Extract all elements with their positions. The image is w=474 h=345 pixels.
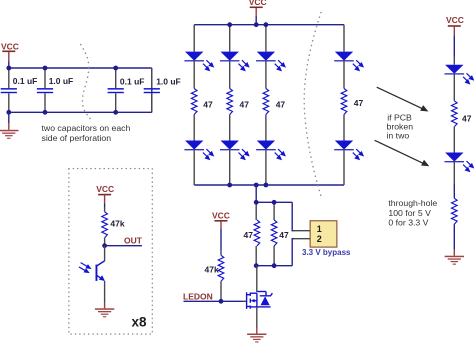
supply VCC (above 47k): [212, 211, 230, 250]
wire bottom node: [256, 265, 292, 267]
resistor R6 47: [271, 202, 289, 265]
wire: [453, 74, 455, 101]
resistor R4 47: [341, 89, 347, 115]
perforation line (left): [81, 45, 91, 120]
svg-text:LEDON: LEDON: [183, 291, 213, 301]
supply VCC (top-right): [446, 15, 464, 56]
wire: [453, 127, 455, 153]
ground GND4 (in box): [95, 303, 114, 318]
transistor Q1 N-MOSFET: [247, 292, 273, 309]
svg-text:47: 47: [462, 114, 472, 124]
svg-text:47: 47: [279, 230, 289, 240]
wire right edge of capacitor bank: [151, 68, 153, 112]
junction dot OUT: [102, 243, 107, 248]
resistor R7 47k: [205, 250, 224, 301]
svg-text:through-hole: through-hole: [388, 198, 437, 208]
capacitor C3 0.1 uF: [108, 68, 145, 112]
svg-text:VCC: VCC: [249, 0, 267, 7]
column 3: wire: [265, 25, 267, 52]
ground GND3 (right column): [445, 249, 464, 265]
wire collector: [104, 246, 106, 261]
column 2: wire: [229, 25, 231, 52]
resistor R5 47: [244, 202, 260, 265]
wire: [193, 150, 195, 185]
LED D8: [334, 141, 363, 160]
svg-text:1.0 uF: 1.0 uF: [156, 77, 181, 87]
junction dots capacitor bank: [6, 66, 118, 115]
pin 2 lead: [294, 238, 311, 240]
junction dots LED array: [227, 22, 268, 187]
wire: [229, 150, 231, 185]
supply VCC (in box): [96, 184, 114, 207]
LED D7: [256, 141, 285, 160]
LED D2: [220, 52, 249, 71]
LED D1: [184, 52, 213, 71]
wire bottom rail of capacitor bank: [9, 111, 152, 113]
svg-text:1: 1: [317, 224, 322, 234]
svg-text:0.1 uF: 0.1 uF: [120, 77, 145, 87]
svg-text:1.0 uF: 1.0 uF: [49, 76, 74, 86]
svg-text:VCC: VCC: [1, 42, 19, 52]
wire: [229, 115, 231, 141]
transistor Q2 phototransistor: [79, 261, 105, 281]
svg-text:VCC: VCC: [446, 15, 464, 25]
connector JP1 3.3 V bypass: [310, 221, 337, 247]
svg-text:47: 47: [203, 100, 213, 110]
svg-text:0.1 uF: 0.1 uF: [13, 76, 38, 86]
svg-text:VCC: VCC: [96, 184, 114, 194]
wire top node: [256, 201, 292, 203]
svg-text:3.3 V bypass: 3.3 V bypass: [302, 248, 351, 257]
capacitor C2 1.0 uF: [37, 68, 73, 112]
resistor R8 47: [452, 101, 458, 127]
wire LEDON net: [184, 300, 243, 302]
resistor R2 47: [227, 89, 233, 115]
arrow (upper, if PCB broken): [377, 87, 429, 111]
svg-text:side of perforation: side of perforation: [42, 133, 112, 143]
svg-text:OUT: OUT: [124, 236, 143, 246]
junction dot LEDON/47k: [219, 299, 224, 304]
resistor R1 47: [191, 89, 197, 115]
resistor R10 47k: [102, 207, 125, 246]
svg-text:47: 47: [244, 230, 254, 240]
wire: [265, 115, 267, 141]
column 4: wire: [343, 25, 345, 52]
wire: [453, 57, 455, 65]
wire bottom rail of LED array: [194, 184, 344, 186]
svg-text:100 for 5 V: 100 for 5 V: [388, 208, 431, 218]
svg-text:0 for 3.3 V: 0 for 3.3 V: [388, 217, 428, 227]
capacitor C1 0.1 uF: [1, 68, 38, 112]
arrow (lower, if PCB broken): [375, 140, 430, 166]
wire: [193, 115, 195, 141]
svg-text:VCC: VCC: [212, 211, 230, 221]
wire: [265, 150, 267, 185]
capacitor C4 1.0 uF: [144, 68, 181, 112]
svg-text:47k: 47k: [110, 219, 124, 229]
wire: [343, 150, 345, 185]
svg-text:47: 47: [276, 100, 286, 110]
supply VCC (top-left): [1, 42, 19, 69]
wire: [265, 61, 267, 89]
resistor R3 47: [263, 89, 269, 115]
wire: [193, 61, 195, 89]
wire: [343, 61, 345, 89]
wire OUT net: [105, 245, 142, 247]
column 1: wire: [193, 25, 195, 52]
LED D5: [184, 141, 213, 160]
perforation line (right): [304, 13, 322, 200]
gate lead: [243, 300, 247, 302]
LED D4: [334, 52, 363, 71]
wire: [453, 162, 455, 184]
wire emitter: [104, 281, 106, 303]
svg-text:47: 47: [354, 98, 364, 108]
svg-text:two capacitors on each: two capacitors on each: [42, 123, 131, 133]
pin 1 lead: [294, 230, 311, 232]
LED D9: [445, 65, 474, 84]
LED D10: [445, 153, 474, 172]
LED D3: [256, 52, 285, 71]
source wire: [256, 308, 258, 328]
junction dots resistor pair: [254, 200, 277, 268]
wire: [229, 61, 231, 89]
wire from bottom rail down: [255, 185, 257, 202]
svg-text:x8: x8: [132, 315, 148, 330]
drain wire: [256, 266, 258, 292]
wire: [343, 115, 345, 141]
wire top rail of LED array: [194, 24, 344, 26]
dotted module box: [69, 169, 152, 335]
wire: [453, 224, 455, 249]
wire to bypass pin 2: [292, 239, 294, 266]
supply VCC (top-center): [249, 0, 267, 25]
wire to bypass pin 1: [292, 202, 294, 230]
svg-text:in two: in two: [387, 131, 410, 141]
ground GND1 (below cap bank): [0, 112, 19, 139]
svg-text:47: 47: [240, 100, 250, 110]
ground GND2 (below MOSFET): [247, 328, 266, 343]
wire top rail of capacitor bank: [9, 67, 152, 69]
svg-text:47k: 47k: [205, 265, 219, 275]
LED D6: [220, 141, 249, 160]
svg-text:2: 2: [317, 234, 322, 244]
resistor R9 through-hole: [452, 198, 458, 224]
